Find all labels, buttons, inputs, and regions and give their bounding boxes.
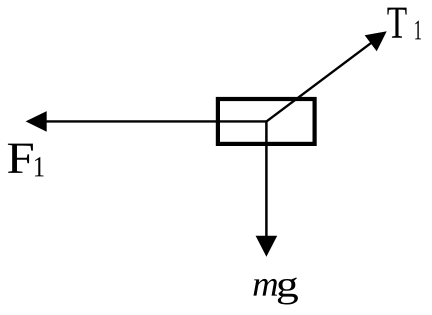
wire: horizontal force line F1 [45, 120, 267, 122]
arrowhead F1 [26, 111, 47, 132]
wire: vertical force line mg [265, 121, 268, 238]
arrowhead mg [256, 236, 278, 257]
label mg: letter g [278, 277, 298, 304]
label F1: subscript 1 [35, 157, 44, 176]
label T1: subscript 1 [415, 21, 421, 40]
block (rectangle body) [218, 99, 315, 144]
arrowhead T1 [365, 31, 387, 51]
label T1: letter T [387, 8, 406, 38]
label mg: italic m [254, 279, 278, 296]
label F1: letter F [8, 144, 33, 173]
wire: diagonal force line T1 [267, 42, 373, 121]
